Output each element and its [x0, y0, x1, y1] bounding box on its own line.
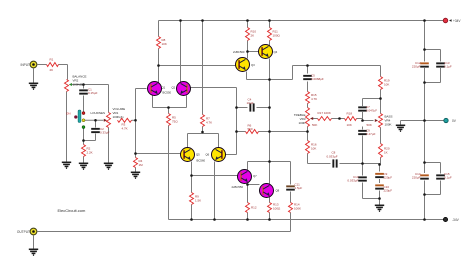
wire input jack ground stub [33, 69, 35, 83]
wire C1 column [83, 85, 85, 112]
wire Q4 base [248, 51, 259, 53]
node [134, 152, 137, 155]
svg-text:Q7: Q7 [253, 174, 257, 178]
transistor Q4 BC560 [259, 45, 273, 59]
svg-text:4.7K: 4.7K [311, 97, 317, 101]
wire loudness yellow contact line [85, 119, 104, 121]
svg-text:Q8: Q8 [276, 189, 280, 193]
wire R3 to junction [132, 119, 136, 121]
svg-text:100Ω: 100Ω [273, 34, 281, 38]
svg-text:220µF: 220µF [384, 189, 393, 193]
node [235, 130, 238, 133]
wire C11 column [290, 162, 292, 203]
ground R2 [79, 163, 88, 169]
svg-text:BC560: BC560 [197, 159, 206, 163]
svg-text:R1: R1 [50, 58, 54, 62]
svg-text:1.5K: 1.5K [195, 199, 201, 203]
terminal 0V [444, 118, 448, 122]
wire Q5 collector / R9 column [191, 162, 193, 220]
capacitor C8 [332, 159, 334, 167]
resistor R5 75 [167, 114, 171, 126]
node [423, 48, 426, 51]
resistor R13 [268, 203, 272, 213]
svg-text:0.15µF: 0.15µF [88, 91, 98, 95]
svg-text:R12: R12 [251, 206, 257, 210]
node [423, 19, 426, 22]
capacitor C1 [79, 89, 88, 91]
wire Q1 collector to Q3 base [159, 65, 236, 67]
capacitor C9 electrolytic [375, 173, 384, 175]
transistor Q1 BC550 [148, 82, 162, 96]
resistor R10 [246, 28, 250, 41]
node [246, 218, 249, 221]
wire R5 column to rail [168, 126, 170, 220]
wire Q2 base to bus [191, 88, 237, 155]
capacitor C4 [249, 103, 251, 111]
svg-text:0.0068µF: 0.0068µF [311, 77, 324, 81]
svg-text:75Ω: 75Ω [172, 120, 178, 124]
output jack [30, 228, 37, 235]
ground 0V [396, 125, 405, 131]
resistor R3 4.7K [118, 118, 132, 122]
wire R19 node to C7 [363, 99, 381, 107]
node [190, 218, 193, 221]
ground balance [62, 162, 71, 168]
transistor Q7 BC550 [238, 170, 252, 184]
svg-text:2.2K: 2.2K [87, 151, 93, 155]
node [268, 160, 271, 163]
wire Q3 collector path [247, 66, 308, 80]
svg-text:220µF: 220µF [384, 176, 393, 180]
transistor Q6 BC560 [212, 148, 226, 162]
wire R14 to output line [290, 213, 292, 232]
capacitor C7 [358, 106, 367, 108]
node [361, 162, 364, 165]
node [246, 183, 249, 186]
svg-text:0.33µF: 0.33µF [100, 131, 110, 135]
potentiometer VR1 VOLUME [107, 113, 111, 128]
capacitor C10 film [358, 176, 367, 178]
resistor R15 [306, 92, 310, 104]
resistor R9 [190, 193, 194, 205]
svg-text:ON: ON [66, 112, 71, 116]
node [378, 197, 381, 200]
resistor R8 [157, 37, 161, 49]
svg-text:10K: 10K [162, 42, 167, 46]
resistor R20 [379, 144, 383, 158]
svg-text:50K: 50K [367, 123, 372, 127]
ground volume [104, 163, 113, 169]
svg-text:1.5µF: 1.5µF [295, 186, 303, 190]
wire balance pot column [66, 92, 68, 162]
wire main bus x=269 [269, 59, 271, 162]
resistor R7 [201, 115, 205, 127]
svg-text:100K(A): 100K(A) [113, 115, 124, 119]
capacitor C9 0.47 [358, 130, 367, 132]
transistor Q2 BC550 [177, 82, 191, 96]
svg-text:-34V: -34V [452, 218, 460, 222]
wire C12/C13 bracket [425, 50, 441, 83]
wire lower pair emitter bracket [188, 134, 219, 148]
node [167, 106, 170, 109]
wire Q1 base / R3 / R4 column [135, 89, 137, 172]
svg-text:0.47µF: 0.47µF [366, 132, 376, 136]
svg-text:LOUDNES: LOUDNES [91, 111, 106, 115]
resistor R17 [318, 117, 332, 121]
wire top +V rail [159, 20, 446, 22]
wire R7 column [202, 21, 204, 134]
node [268, 218, 271, 221]
terminal -34V [443, 217, 447, 221]
node [268, 78, 271, 81]
node [378, 163, 381, 166]
potentiometer VR2 BALANCE [65, 80, 69, 92]
svg-text:+34V: +34V [453, 19, 461, 23]
node [306, 130, 309, 133]
node [361, 119, 364, 122]
node [201, 19, 204, 22]
capacitor C10 electrolytic [375, 184, 384, 186]
svg-text:100K: 100K [385, 123, 392, 127]
wire electrolytic C9 C10 column [379, 165, 381, 199]
ground output [29, 249, 38, 255]
svg-text:100K: 100K [294, 207, 301, 211]
wire R10 column [247, 21, 249, 59]
node [423, 81, 426, 84]
wire output line [38, 231, 291, 233]
wire C14/C15 bracket [425, 163, 441, 195]
svg-text:0.1µF: 0.1µF [444, 65, 452, 69]
wire right bus column [424, 21, 426, 220]
wire Q1 base [136, 88, 147, 90]
resistor R12 [246, 203, 250, 213]
svg-text:2K: 2K [50, 68, 54, 72]
wire Q7 collector to C11 [248, 162, 291, 170]
svg-text:OUTPUT: OUTPUT [17, 230, 30, 234]
node [379, 97, 382, 100]
svg-text:0.1µF: 0.1µF [444, 176, 452, 180]
svg-text:Q6: Q6 [206, 153, 210, 157]
resistor R6 560 [246, 130, 259, 134]
node [423, 161, 426, 164]
capacitor C5 [303, 75, 312, 77]
capacitor C14 [420, 174, 429, 176]
switch contact yellow [82, 119, 85, 122]
svg-text:Q4: Q4 [274, 50, 278, 54]
switch S1 loudness body [78, 110, 81, 123]
wire Q7 base line [192, 175, 238, 177]
potentiometer VR3 TREBLE [306, 108, 310, 127]
node [235, 106, 238, 109]
svg-text:BC550: BC550 [163, 90, 172, 94]
svg-text:ElecCircuit.com: ElecCircuit.com [58, 208, 86, 213]
transistor Q3 BC560 [236, 58, 250, 72]
svg-text:0.047µF: 0.047µF [366, 109, 377, 113]
svg-text:Q5: Q5 [196, 153, 200, 157]
ground input [29, 83, 38, 89]
svg-text:2K: 2K [251, 34, 255, 38]
transistor Q5 BC560 [181, 148, 195, 162]
switch contact green [82, 126, 85, 129]
svg-text:100K: 100K [298, 121, 305, 125]
svg-text:10µF: 10µF [247, 101, 254, 105]
wire treble bottom / R16 column [307, 127, 309, 164]
wire Q7 emitter to Q8 base [248, 184, 260, 203]
svg-text:4.7K: 4.7K [122, 127, 128, 131]
svg-text:10K: 10K [311, 147, 316, 151]
ground R4 [131, 172, 140, 178]
capacitor C2 [91, 128, 100, 130]
wire hanging cap C10 column [363, 164, 380, 205]
svg-text:Q2: Q2 [172, 86, 176, 90]
potentiometer VR4 BASS [379, 114, 383, 128]
svg-text:10K: 10K [384, 83, 389, 87]
wire R18 line [340, 118, 363, 120]
wire Q6 collector column [214, 162, 216, 220]
node [82, 83, 85, 86]
svg-text:INPUT: INPUT [20, 63, 30, 67]
node [213, 218, 216, 221]
svg-text:100K(B): 100K(B) [73, 83, 84, 87]
wire output jack ground stub [33, 236, 35, 249]
svg-text:2xBC560: 2xBC560 [233, 50, 245, 54]
capacitor C11 [286, 185, 295, 187]
wire Q8 collector stub [269, 162, 271, 184]
wire bass wiper line [363, 120, 374, 122]
node [134, 119, 137, 122]
svg-text:R17 100K: R17 100K [318, 111, 331, 115]
wire treble wiper to R17 [312, 118, 340, 120]
svg-text:R18: R18 [347, 112, 353, 116]
resistor R1 2K [47, 63, 59, 67]
wire treble R15 column [307, 66, 309, 108]
resistor R4 1M [134, 158, 138, 168]
resistor R14 [289, 203, 293, 213]
wire C2 column [84, 120, 96, 162]
node [268, 130, 271, 133]
transistor Q8 BC550 [260, 184, 274, 198]
svg-text:2xBC550: 2xBC550 [232, 185, 244, 189]
capacitor C12 [420, 62, 429, 64]
svg-text:50K: 50K [312, 123, 317, 127]
svg-text:220µF: 220µF [412, 176, 421, 180]
wire volume pot bottom [108, 128, 110, 163]
svg-text:Q1: Q1 [162, 86, 166, 90]
terminal +34V [443, 18, 448, 23]
svg-text:100Ω: 100Ω [273, 207, 281, 211]
switch contact red [82, 112, 85, 115]
svg-text:560: 560 [248, 127, 253, 131]
svg-text:Q3: Q3 [251, 63, 255, 67]
svg-text:1K: 1K [384, 151, 388, 155]
node [306, 64, 309, 67]
resistor R18 [345, 117, 357, 121]
wire Q1 Q2 emitter bracket [153, 96, 187, 114]
node [157, 64, 160, 67]
ground C9 C10 [375, 205, 384, 211]
svg-text:220µF: 220µF [412, 65, 421, 69]
node [179, 19, 182, 22]
node [201, 131, 204, 134]
wire Q8 emitter / R13 [269, 197, 271, 220]
wire R12 to rail [247, 213, 249, 220]
wire R6 line [237, 131, 308, 133]
svg-text:1M: 1M [139, 163, 144, 167]
wire 0V line [401, 121, 444, 125]
node [338, 117, 341, 120]
resistor R16 [306, 141, 310, 154]
wire input to R1 [38, 65, 68, 80]
wire bass pot column [380, 99, 382, 165]
svg-text:10K: 10K [347, 123, 352, 127]
node [246, 50, 249, 53]
wire Q2 collector column [180, 21, 182, 83]
capacitor C15 [436, 174, 445, 176]
wire C7 to wiper node [362, 112, 364, 121]
wire C8 line [308, 163, 363, 165]
capacitor C13 [436, 62, 445, 64]
svg-text:4.7K: 4.7K [206, 121, 212, 125]
node [82, 139, 85, 142]
switch lever [74, 115, 77, 118]
wire bottom -V rail [169, 219, 446, 221]
svg-text:0.033µF: 0.033µF [327, 155, 338, 159]
node [190, 174, 193, 177]
node [423, 119, 426, 122]
input jack [30, 61, 37, 68]
wire R8/Q1 collector column [158, 21, 160, 83]
resistor R19 [379, 77, 383, 90]
node [94, 119, 97, 122]
wire -V terminal stub [425, 219, 443, 221]
wire C9 column [362, 127, 364, 165]
resistor R11 [268, 28, 272, 41]
node [246, 19, 249, 22]
node [423, 193, 426, 196]
node [268, 19, 271, 22]
node [423, 218, 426, 221]
wire R11 / Q4 column [269, 21, 271, 46]
wire C4 line [237, 107, 270, 109]
wire R19 column [380, 90, 382, 99]
wire Q5 base line [136, 153, 181, 155]
node [268, 106, 271, 109]
resistor R2 [82, 145, 86, 157]
svg-text:0.033µF: 0.033µF [347, 179, 358, 183]
wire treble top node line [308, 66, 381, 77]
wire C8 node to bass node [363, 163, 381, 165]
wire balance wiper line [72, 85, 109, 113]
